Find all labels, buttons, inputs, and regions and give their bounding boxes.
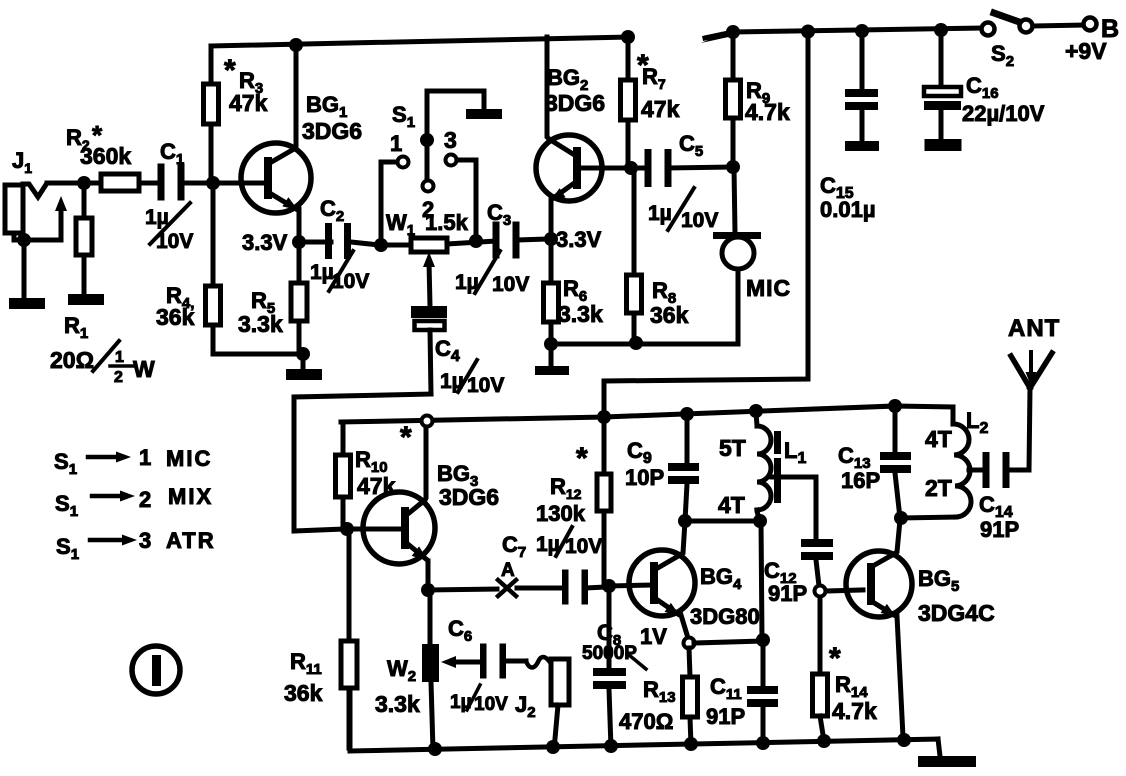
label +9V: [1065, 38, 1107, 64]
transistor BG1: [241, 143, 311, 213]
potentiometer W1 1.5k body: [379, 238, 496, 252]
svg-text:91P: 91P: [980, 517, 1019, 542]
connector J2: [551, 659, 569, 750]
wire L2 bottom row: [901, 517, 956, 518]
svg-text:91P: 91P: [768, 581, 807, 606]
wire squiggle to J2: [526, 657, 549, 668]
capacitor C14: [983, 452, 1030, 488]
microphone MIC: [713, 167, 761, 269]
label C16: [966, 73, 999, 102]
node R12 top on rail: [597, 410, 611, 424]
label R5 3.3k: [238, 288, 283, 337]
svg-text:4T: 4T: [925, 426, 952, 452]
wire collector row to L1 bottom: [685, 519, 760, 524]
node J2 on bottom rail: [546, 740, 560, 754]
capacitor C1: [158, 164, 185, 201]
node feed wire on rail: [801, 25, 815, 39]
svg-text:3.3k: 3.3k: [238, 311, 283, 337]
svg-text:3DG6: 3DG6: [439, 484, 499, 510]
ground at bottom right: [918, 739, 976, 767]
resistor R14 4.7k: [813, 597, 828, 741]
capacitor C7: [562, 570, 606, 605]
label 0.01µ: [820, 197, 876, 222]
svg-text:36k: 36k: [284, 680, 323, 706]
svg-text:ANT: ANT: [1008, 315, 1060, 342]
BG2 emitter lead: [550, 184, 573, 239]
svg-text:A: A: [501, 560, 515, 581]
potentiometer W2 3.3k: [422, 590, 439, 750]
node BG1 emitter junction: [292, 235, 306, 249]
label L1: [784, 438, 806, 467]
capacitor C11: [747, 640, 778, 745]
svg-text:W: W: [133, 356, 155, 382]
label C3 value 1µ/10V: [455, 251, 529, 296]
capacitor C8: [593, 586, 626, 748]
resistor R9 4.7k: [726, 32, 741, 167]
node R7 top on rail: [621, 30, 635, 44]
wire BG3 emitter row: [428, 588, 563, 590]
label S2: [991, 41, 1014, 70]
capacitor C13: [880, 406, 911, 518]
node R6 ground junction: [544, 337, 558, 351]
BG4 emitter lead: [656, 599, 688, 638]
svg-text:4.7k: 4.7k: [832, 698, 877, 724]
node L1 top on rail: [749, 404, 763, 418]
label C5: [679, 131, 703, 160]
BG2 collector lead: [547, 37, 573, 154]
node BG3 emitter junction: [421, 583, 435, 597]
label C14 91P: [979, 492, 1019, 542]
svg-text:MIC: MIC: [746, 275, 791, 301]
resistor R3 47k: [204, 46, 219, 183]
capacitor C2: [299, 223, 379, 259]
wire emitter tap to L1 bottom: [761, 521, 762, 641]
wire S1 contact 3 to W1 right: [457, 160, 476, 238]
transistor BG4: [609, 550, 695, 616]
label S1: [392, 102, 415, 131]
C15 bottom bar: [845, 141, 879, 151]
label C6: [448, 616, 472, 645]
svg-text:10V: 10V: [156, 230, 193, 253]
label 20Ω/½W value: [50, 341, 155, 386]
transistor BG2: [536, 135, 602, 201]
svg-text:22µ/10V: 22µ/10V: [962, 101, 1045, 126]
S1 contact 2 circle: [423, 181, 434, 192]
node C5 / R9 / MIC junction: [726, 160, 740, 174]
svg-text:3: 3: [139, 528, 151, 553]
svg-text:*: *: [400, 421, 412, 454]
node BG3 base junction: [340, 522, 354, 536]
wire BG2 base line: [578, 166, 648, 171]
label C2 value 1µ/10V: [310, 251, 369, 293]
label 3DG6 (BG2): [545, 90, 605, 116]
node J1 sleeve junction: [17, 233, 31, 247]
inductor L2 4T+2T: [953, 407, 971, 517]
svg-text:2: 2: [139, 487, 151, 512]
wire stage-2 ground line to MIC: [551, 269, 738, 344]
node R9 on rail: [726, 25, 740, 39]
capacitor C6: [480, 644, 526, 679]
label 360k: [80, 143, 131, 169]
wire J1 sleeve to ground: [14, 208, 61, 240]
label BG4: [700, 564, 742, 593]
node R8 bottom junction: [629, 336, 643, 350]
node C9/BG4 collector junction: [678, 514, 692, 528]
svg-text:10V: 10V: [492, 273, 529, 296]
ground under R6: [535, 344, 569, 375]
connector J1 (input jack): [5, 183, 84, 233]
svg-text:10V: 10V: [681, 209, 718, 232]
capacitor C16 (electrolytic): [924, 31, 961, 140]
label MIC: [746, 275, 791, 301]
label W2: [387, 656, 416, 685]
svg-text:1: 1: [390, 131, 402, 156]
svg-text:16P: 16P: [841, 468, 880, 493]
resistor R4 36k: [206, 183, 221, 352]
node L2 bottom junction: [894, 511, 908, 525]
node BG2 base / R7 / R8 junction: [624, 161, 638, 175]
wire 1V row: [694, 641, 761, 643]
resistor R2 360k (horizontal): [101, 174, 139, 191]
node BG4 base junction: [602, 579, 616, 593]
label C15: [820, 173, 854, 202]
svg-text:1V: 1V: [640, 624, 667, 649]
label 3 (S1 pos 3): [444, 127, 457, 153]
svg-text:3DG6: 3DG6: [302, 118, 362, 144]
label A: [501, 560, 515, 581]
label R10* 47k: [355, 421, 412, 499]
svg-text:3: 3: [444, 127, 457, 153]
svg-text:36k: 36k: [650, 302, 689, 328]
S1 contact 1 circle: [398, 157, 409, 168]
inductor L1 5T+4T: [756, 412, 771, 521]
wire top rail of first stage: [211, 37, 628, 46]
BG3 collector lead: [409, 427, 426, 513]
wire C4 to BG3 base: [294, 394, 431, 531]
ground of S1 bracket: [466, 109, 502, 119]
node C16 on rail: [934, 23, 948, 37]
switch S2: [982, 13, 1097, 36]
label BG1: [306, 92, 347, 121]
label R4, 36k: [156, 283, 195, 330]
label R13 470Ω: [619, 677, 676, 734]
label ANT: [1008, 315, 1060, 342]
svg-text:1: 1: [139, 445, 151, 470]
label 4T (L2): [925, 426, 952, 452]
label C1: [160, 139, 184, 168]
node emitter tap junction: [756, 633, 770, 647]
label J2: [515, 692, 536, 721]
BG3 emitter lead: [409, 545, 428, 590]
label R14* 4.7k: [829, 642, 877, 724]
svg-text:36k: 36k: [156, 304, 195, 330]
svg-text:3.3k: 3.3k: [558, 301, 603, 327]
wire input line to R1/R2: [47, 181, 101, 186]
capacitor C4 (electrolytic): [411, 306, 447, 394]
svg-text:1µ: 1µ: [648, 202, 672, 225]
node S1 pole junction: [420, 133, 434, 147]
label 1 (S1 pos 1): [390, 131, 402, 156]
node base/R3/R4 junction: [206, 176, 220, 190]
label 3.3V (BG2 emitter): [556, 227, 602, 252]
capacitor C12: [801, 539, 833, 586]
W2 wiper arrow: [441, 656, 484, 668]
wire S1 contact 1: [381, 162, 396, 245]
label R8 36k: [650, 278, 689, 328]
transistor BG5: [826, 551, 912, 617]
svg-text:130k: 130k: [536, 501, 586, 526]
node L1 bottom junction: [753, 514, 767, 528]
svg-text:2T: 2T: [925, 475, 952, 501]
BG5 emitter lead: [871, 601, 903, 737]
resistor R6 3.3k: [544, 239, 559, 344]
node R13 on bottom rail: [684, 737, 698, 751]
svg-text:+9V: +9V: [1065, 38, 1107, 64]
svg-text:0.01µ: 0.01µ: [820, 197, 876, 222]
svg-text:1µ: 1µ: [310, 261, 334, 284]
label W1: [386, 210, 415, 239]
label 1V: [640, 624, 667, 649]
node W2 on bottom rail: [428, 742, 442, 756]
label J1: [12, 148, 32, 176]
capacitor C5: [645, 149, 732, 187]
wire R2 to C1: [139, 181, 161, 186]
resistor R7 47k: [621, 37, 636, 168]
svg-text:10V: 10V: [474, 694, 508, 715]
label 3DG4C: [918, 600, 995, 626]
node C9 top on rail: [680, 407, 694, 421]
wire S1 pole to ground bracket: [427, 91, 484, 180]
label 5T: [719, 435, 746, 461]
svg-text:470Ω: 470Ω: [619, 709, 673, 734]
label C11 91P: [706, 674, 745, 729]
BG4 collector lead: [656, 521, 685, 569]
svg-text:47k: 47k: [229, 90, 268, 116]
label R12* 130k: [536, 442, 588, 526]
svg-text:*: *: [829, 642, 841, 675]
BG5 collector lead: [871, 520, 900, 567]
label BG3: [437, 461, 478, 490]
label R3* 47k: [224, 54, 268, 116]
wire L2 tap to C14: [969, 468, 986, 473]
label 1.5k (W1): [425, 210, 469, 235]
ground under R1: [68, 294, 104, 305]
svg-text:10V: 10V: [467, 374, 504, 397]
jack switch arrow: [55, 196, 67, 211]
node W1 right / C3 junction: [469, 234, 483, 248]
label R1: [64, 313, 88, 342]
node BG5 base (open circle): [815, 586, 826, 597]
label C4: [435, 336, 460, 365]
svg-text:3.3V: 3.3V: [242, 230, 288, 255]
svg-text:47k: 47k: [641, 96, 680, 122]
svg-text:*: *: [576, 442, 588, 475]
node C11 on bottom rail: [756, 736, 770, 750]
label B: [1101, 15, 1119, 43]
node BG1 collector on rail: [289, 38, 303, 52]
BG1 collector lead: [268, 45, 296, 164]
label R7* 47k: [637, 49, 680, 122]
node C15 on rail: [855, 24, 869, 38]
node W1 left / S1-1 junction: [374, 238, 388, 252]
svg-text:3.3V: 3.3V: [556, 227, 602, 252]
figure number circled 1: [132, 646, 180, 694]
wire L1 tap to C12: [772, 477, 816, 539]
resistor R8 36k: [627, 168, 642, 343]
wire rail feed down to oscillator section: [604, 31, 808, 417]
wire C14 to antenna: [1029, 388, 1030, 470]
svg-text:3DG4C: 3DG4C: [918, 600, 995, 626]
label 4T (L1): [718, 492, 745, 518]
node C13 top on rail: [888, 399, 902, 413]
ground under R4/R5: [286, 354, 322, 380]
label C7 1µ/10V: [502, 527, 602, 561]
node C8 on bottom rail: [604, 739, 618, 753]
wire R4 bottom to ground: [213, 352, 303, 354]
legend S1 pos2 MIX: [55, 484, 213, 520]
svg-text:10V: 10V: [332, 270, 369, 293]
label 22µ/10V: [962, 101, 1045, 126]
svg-text:4.7k: 4.7k: [745, 99, 790, 125]
svg-text:10P: 10P: [625, 465, 664, 490]
wire oscillator top rail: [341, 406, 953, 422]
label 3DG80: [690, 604, 760, 629]
svg-text:ATR: ATR: [166, 528, 216, 553]
W1 wiper arrow: [423, 252, 435, 306]
legend S1 pos1 MIC: [54, 445, 212, 478]
BG1 emitter lead: [268, 192, 299, 242]
svg-text:20Ω: 20Ω: [50, 347, 94, 373]
capacitor C9: [668, 414, 699, 521]
node 1V (open circle): [684, 638, 695, 649]
label 3.3k (W2): [375, 691, 420, 717]
svg-text:*: *: [224, 54, 236, 87]
node input/R1 junction: [77, 176, 91, 190]
label C5 value 1µ/10V: [648, 188, 718, 232]
legend S1 pos3 ATR: [56, 528, 216, 563]
capacitor C15: [845, 31, 878, 142]
label C6 value 1µ/10V: [450, 685, 508, 715]
svg-text:MIX: MIX: [168, 484, 213, 509]
node R14 on bottom rail: [817, 734, 831, 748]
label C3: [487, 200, 511, 229]
label BG2: [547, 65, 588, 94]
resistor R1 20Ω/½W: [76, 183, 92, 294]
label C2: [320, 196, 344, 225]
BG3 collector node (open): [422, 416, 433, 427]
label C4 value 1µ/10V: [440, 360, 504, 397]
label C9 10P: [625, 438, 664, 490]
svg-text:3DG80: 3DG80: [690, 604, 760, 629]
resistor R11 36k: [341, 529, 357, 748]
wire +9V rail: [701, 28, 981, 43]
label 3DG6 (BG3): [439, 484, 499, 510]
label R11 36k: [284, 649, 323, 706]
label C1 value 1µ/10V: [145, 203, 193, 253]
svg-text:360k: 360k: [80, 143, 131, 169]
label R6 3.3k: [558, 276, 603, 327]
label R2*: [66, 120, 103, 153]
C16 bottom bar: [925, 139, 962, 151]
svg-text:4T: 4T: [718, 492, 745, 518]
resistor R5 3.3k: [291, 242, 307, 354]
transistor BG3: [347, 492, 435, 564]
svg-text:2: 2: [114, 369, 123, 386]
wire C1 to BG1 base: [184, 181, 262, 186]
resistor R10 47k: [336, 422, 351, 529]
label 2 (S1 pos 2): [422, 197, 434, 222]
svg-text:3DG6: 3DG6: [545, 90, 605, 116]
resistor R12 130k: [597, 417, 611, 583]
node R4/R5 ground junction: [296, 347, 310, 361]
label 2T (L2): [925, 475, 952, 501]
label C13 16P: [838, 443, 880, 493]
svg-text:91P: 91P: [706, 704, 745, 729]
svg-text:1: 1: [115, 349, 124, 366]
antenna ANT: [1011, 352, 1052, 388]
node BG5 emitter on bottom rail: [897, 733, 911, 747]
svg-text:5T: 5T: [719, 435, 746, 461]
L1 core bars: [774, 431, 781, 503]
svg-text:1.5k: 1.5k: [425, 210, 469, 235]
S1 contact 3 circle: [446, 155, 457, 166]
ground under J1: [9, 240, 45, 309]
node BG2 emitter junction: [544, 232, 558, 246]
label 3.3V (BG1 emitter): [242, 230, 288, 255]
label 3DG6 (BG1): [302, 118, 362, 144]
label BG5: [918, 566, 959, 595]
label C12 91P: [764, 558, 807, 606]
resistor R13 470Ω: [683, 648, 698, 746]
svg-text:MIC: MIC: [166, 446, 212, 471]
label C8 5000P: [582, 620, 646, 669]
svg-text:3.3k: 3.3k: [375, 691, 420, 717]
svg-text:10V: 10V: [565, 535, 602, 558]
label R9 4.7k: [745, 78, 790, 125]
capacitor C3: [493, 222, 550, 259]
label L2: [966, 408, 988, 437]
wire bottom ground rail: [350, 690, 938, 751]
node A (X mark): [498, 580, 516, 596]
